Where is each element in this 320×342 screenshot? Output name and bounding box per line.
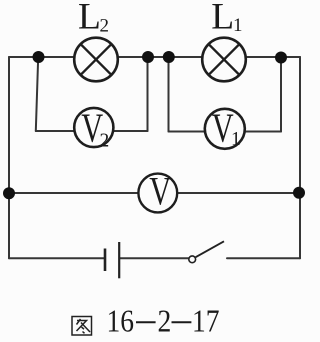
svg-text:1: 1	[231, 129, 241, 150]
svg-text:17: 17	[192, 303, 220, 339]
svg-text:1: 1	[233, 15, 243, 36]
svg-text:16: 16	[107, 303, 135, 339]
svg-text:V: V	[149, 169, 171, 214]
svg-text:2: 2	[100, 16, 110, 37]
svg-text:L: L	[78, 0, 101, 37]
svg-text:L: L	[211, 0, 234, 37]
svg-text:2: 2	[158, 303, 172, 339]
svg-text:2: 2	[100, 131, 110, 152]
